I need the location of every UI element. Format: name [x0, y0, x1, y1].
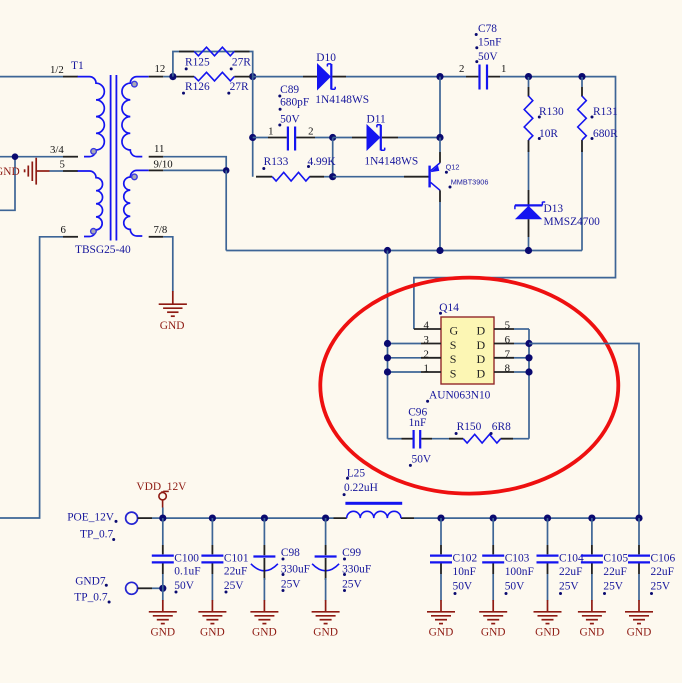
mosfet Q14 body: [441, 317, 494, 384]
junction rail C104: [544, 515, 551, 522]
svg-text:1/2: 1/2: [50, 64, 64, 76]
svg-text:D: D: [477, 366, 486, 380]
Q14 pin 5: [494, 328, 529, 330]
svg-text:7: 7: [505, 348, 511, 360]
svg-text:GND: GND: [313, 627, 338, 639]
port POE_12V circle: [126, 512, 163, 524]
transformer polarity dot pin 12 side: [132, 81, 138, 87]
svg-text:D13: D13: [544, 203, 564, 215]
svg-text:C103: C103: [505, 553, 530, 565]
svg-text:330uF: 330uF: [342, 564, 371, 576]
svg-text:15nF: 15nF: [478, 37, 501, 49]
svg-text:0.22uH: 0.22uH: [344, 482, 378, 494]
VDD stem wire: [162, 508, 164, 519]
junction left of R125/R126: [169, 73, 176, 80]
junction Q14 pin7: [525, 354, 532, 361]
svg-text:50V: 50V: [174, 580, 194, 592]
svg-text:Q14: Q14: [439, 302, 459, 314]
svg-text:C89: C89: [280, 84, 299, 96]
svg-text:8: 8: [505, 362, 510, 374]
pin 12 wire to node: [149, 76, 173, 78]
svg-text:22uF: 22uF: [224, 566, 247, 578]
junction Q14 pin6: [525, 340, 532, 347]
svg-text:100nF: 100nF: [505, 566, 534, 578]
svg-text:50V: 50V: [280, 114, 300, 126]
Q14 pin 3: [388, 343, 442, 345]
transformer T1 secondary winding lower (pins 9/10 - 7/8): [124, 170, 149, 236]
svg-text:R125: R125: [185, 57, 210, 69]
Q14 pin 2: [388, 357, 442, 359]
svg-text:Q12: Q12: [446, 162, 460, 171]
svg-text:25V: 25V: [603, 581, 623, 593]
wire R131 bottom to rail corner: [581, 158, 583, 251]
wire from R125 node down to C89 row and R133 row: [252, 77, 254, 177]
junction rail C106: [635, 515, 642, 522]
svg-text:R130: R130: [539, 106, 564, 118]
junction rail C99: [322, 515, 329, 522]
junction at C89 right: [329, 134, 336, 141]
pin 9/10 wire to junction: [149, 169, 227, 171]
svg-text:12: 12: [155, 63, 166, 75]
svg-text:C105: C105: [603, 553, 628, 565]
ground GND under C106: [625, 612, 653, 624]
capacitor C102: [430, 518, 452, 611]
svg-text:25V: 25V: [281, 579, 301, 591]
zener diode D13: [515, 202, 545, 251]
svg-text:D: D: [477, 352, 486, 366]
svg-text:GND: GND: [429, 627, 454, 639]
resistor R125: [179, 47, 250, 56]
capacitor C100: [152, 518, 174, 611]
svg-text:1: 1: [268, 125, 273, 137]
svg-text:TP_0.7: TP_0.7: [80, 529, 114, 541]
svg-text:R131: R131: [593, 106, 618, 118]
capacitor C104: [537, 518, 559, 611]
capacitor C78: [466, 65, 500, 90]
svg-text:GND: GND: [481, 627, 506, 639]
power port VDD_12V: [159, 491, 169, 507]
junction GND7 net: [159, 585, 166, 592]
svg-text:27R: 27R: [230, 81, 249, 93]
svg-text:POE_12V: POE_12V: [67, 512, 115, 524]
label anchor dots: [105, 33, 653, 604]
svg-text:GND: GND: [200, 627, 225, 639]
red highlight ellipse: [320, 278, 618, 494]
pin 6 of T1 wire down left side: [0, 237, 78, 518]
Q14 right vertical wire: [528, 329, 530, 439]
svg-text:6R8: 6R8: [492, 421, 511, 433]
capacitor C105: [581, 518, 603, 611]
svg-text:MMSZ4700: MMSZ4700: [544, 216, 601, 228]
svg-text:C101: C101: [224, 553, 249, 565]
svg-text:GND: GND: [160, 320, 185, 332]
svg-text:1N4148WS: 1N4148WS: [364, 156, 418, 168]
wire net to pin 3/4 of T1: [0, 156, 78, 158]
svg-text:0.1uF: 0.1uF: [174, 566, 200, 578]
svg-text:680R: 680R: [593, 128, 618, 140]
svg-text:GND: GND: [252, 627, 277, 639]
Q14 pin 7: [494, 357, 529, 359]
ground GND under C100: [149, 612, 177, 624]
bottom power rail: [163, 517, 639, 519]
ground GND at pin 5 (rotated): [25, 158, 50, 185]
svg-text:2: 2: [424, 348, 429, 360]
junction above Q12 emitter branch: [436, 73, 443, 80]
junction rail C98: [261, 515, 268, 522]
svg-text:50V: 50V: [478, 51, 498, 63]
junction rail VDD/C100: [159, 515, 166, 522]
svg-text:D11: D11: [367, 114, 386, 126]
svg-text:C78: C78: [478, 23, 497, 35]
Q14 pin 6: [494, 343, 529, 345]
svg-text:C104: C104: [559, 553, 584, 565]
svg-text:GND7: GND7: [75, 575, 106, 587]
Q14 pin 4 (G): [414, 328, 441, 330]
svg-text:3/4: 3/4: [50, 144, 64, 156]
resistor R126: [177, 72, 251, 81]
svg-text:D: D: [477, 338, 486, 352]
svg-text:S: S: [450, 352, 457, 366]
svg-text:R126: R126: [185, 81, 210, 93]
svg-text:C98: C98: [281, 547, 300, 559]
svg-text:D: D: [477, 324, 486, 338]
svg-text:GND: GND: [627, 627, 652, 639]
wire Q14 pin6 out to right and down to rail: [529, 344, 639, 519]
svg-text:C99: C99: [342, 547, 361, 559]
transistor Q2 body: [430, 163, 440, 191]
diode D11: [333, 124, 440, 151]
svg-text:TP_0.7: TP_0.7: [74, 592, 108, 604]
junction rail C102: [437, 515, 444, 522]
ground GND under C99: [312, 612, 340, 624]
inductor L25: [334, 511, 415, 518]
svg-text:25V: 25V: [559, 581, 579, 593]
svg-text:R133: R133: [264, 156, 289, 168]
junction Q14 pin3: [384, 340, 391, 347]
wire C89 right down to R133 right: [332, 138, 334, 177]
junction rail C105: [588, 515, 595, 522]
svg-text:C100: C100: [174, 553, 199, 565]
wire rail down to Q14 source pins: [387, 251, 389, 439]
transformer polarity dot pin 9/10 side: [132, 174, 138, 180]
svg-text:GND: GND: [580, 627, 605, 639]
node A junction on pin 3/4 wire: [12, 153, 19, 160]
pin 5 of T1: [50, 170, 79, 172]
port GND7 circle: [126, 582, 163, 594]
resistor R150: [449, 434, 529, 443]
transformer T1 primary winding upper (pins 1/2 - 3/4): [78, 77, 105, 157]
svg-text:4.99K: 4.99K: [308, 156, 337, 168]
svg-text:10nF: 10nF: [453, 566, 476, 578]
svg-text:T1: T1: [71, 60, 84, 72]
wire from R125/R126 to D10: [253, 76, 303, 78]
resistor R131: [578, 77, 587, 158]
transformer T1 secondary winding upper (pins 12 - 11): [122, 77, 149, 157]
svg-text:G: G: [450, 324, 459, 338]
junction at C89 left: [249, 134, 256, 141]
ground GND under C98: [250, 612, 278, 624]
junction Q14 pin2: [384, 354, 391, 361]
wire from top node down to D11 node: [439, 77, 441, 138]
svg-text:GND: GND: [150, 627, 175, 639]
junction top of R131: [578, 73, 585, 80]
ground GND under C104: [534, 612, 562, 624]
svg-text:22uF: 22uF: [559, 566, 582, 578]
junction at D11 cathode / Q12 emitter: [436, 134, 443, 141]
svg-text:GND: GND: [535, 627, 560, 639]
svg-text:1N4148WS: 1N4148WS: [315, 94, 369, 106]
svg-text:6: 6: [505, 334, 511, 346]
inductor L25 bar: [345, 502, 402, 505]
junction at R133 right: [329, 173, 336, 180]
junction right of R125/R126: [249, 73, 256, 80]
junction rail C103: [490, 515, 497, 522]
junction Q14 pin8: [525, 368, 532, 375]
junction rail C101: [209, 515, 216, 522]
svg-text:50V: 50V: [453, 581, 473, 593]
svg-text:AUN063N10: AUN063N10: [429, 390, 491, 402]
lower rail wire: [226, 250, 582, 252]
capacitor C98 (polarized): [251, 518, 278, 611]
diode D10: [303, 63, 346, 91]
svg-text:11: 11: [154, 143, 164, 155]
svg-text:R150: R150: [457, 421, 482, 433]
svg-text:7/8: 7/8: [154, 224, 168, 236]
svg-text:25V: 25V: [342, 579, 362, 591]
svg-text:25V: 25V: [224, 580, 244, 592]
capacitor C99 (polarized): [312, 518, 339, 611]
ground GND under C103: [479, 612, 507, 624]
svg-text:TBSG25-40: TBSG25-40: [75, 244, 131, 256]
ground GND under C101: [198, 612, 226, 624]
svg-text:2: 2: [459, 63, 464, 75]
wire R133 row to Q12 base: [333, 176, 429, 178]
svg-text:VDD_12V: VDD_12V: [136, 481, 187, 493]
svg-text:S: S: [450, 338, 457, 352]
transformer polarity dot pin 3/4 side: [91, 149, 97, 155]
junction Q14 pin1: [384, 368, 391, 375]
svg-text:D10: D10: [316, 52, 336, 64]
svg-text:C106: C106: [651, 553, 676, 565]
svg-text:6: 6: [61, 224, 67, 236]
junction rail at D13: [525, 247, 532, 254]
ground GND under C102: [427, 612, 455, 624]
junction rail at Q12 collector: [436, 247, 443, 254]
resistor R130: [524, 77, 533, 158]
wire net to pin 1/2 of T1: [0, 76, 78, 78]
capacitor C106: [628, 518, 650, 611]
svg-text:C102: C102: [453, 553, 478, 565]
ground GND under C105: [578, 612, 606, 624]
svg-text:MMBT3906: MMBT3906: [451, 178, 489, 187]
ground GND below pin 7/8: [159, 304, 187, 316]
Q12 collector wire down: [439, 190, 441, 250]
svg-text:25V: 25V: [651, 581, 671, 593]
wire D10 to C78 and node: [346, 76, 466, 78]
svg-text:27R: 27R: [232, 57, 251, 69]
svg-text:3: 3: [424, 334, 429, 346]
svg-text:5: 5: [505, 320, 510, 332]
pin 11 wire over to junction: [149, 157, 227, 171]
capacitor C103: [482, 518, 504, 611]
svg-text:680pF: 680pF: [280, 96, 309, 108]
junction rail to Q14 gate-net drop: [384, 247, 391, 254]
svg-text:4: 4: [424, 320, 430, 332]
capacitor C89: [253, 127, 333, 151]
svg-text:5: 5: [60, 159, 65, 171]
svg-text:22uF: 22uF: [603, 566, 626, 578]
svg-text:GND: GND: [0, 166, 20, 178]
svg-text:50V: 50V: [505, 581, 525, 593]
svg-text:10R: 10R: [539, 128, 558, 140]
svg-text:L25: L25: [347, 468, 366, 480]
wire C78 to R130 R131 and corner down: [414, 77, 616, 329]
transformer T1 primary winding lower (pins 5 - 6): [78, 171, 103, 237]
svg-text:330uF: 330uF: [281, 564, 310, 576]
wire loop for R125 branch: [173, 52, 253, 77]
svg-text:1: 1: [501, 63, 506, 75]
svg-text:1: 1: [424, 362, 429, 374]
resistor R133: [256, 172, 333, 181]
svg-text:1nF: 1nF: [409, 417, 427, 429]
pin 7/8 wire down to ground: [149, 237, 173, 304]
svg-text:S: S: [450, 366, 457, 380]
Q14 pin 8: [494, 371, 529, 373]
svg-text:9/10: 9/10: [154, 159, 173, 171]
Q12 emitter wire up: [439, 138, 441, 163]
transformer T1 core: [111, 75, 117, 241]
junction top of R130: [525, 73, 532, 80]
capacitor C96: [388, 430, 450, 449]
capacitor C101: [201, 518, 223, 611]
junction at 9/10 node: [223, 167, 230, 174]
svg-text:22uF: 22uF: [651, 566, 674, 578]
svg-text:50V: 50V: [412, 454, 432, 466]
wire R130 bottom to D13 top: [528, 158, 530, 205]
wire branch from node at pin 3/4 down and out left: [0, 157, 15, 211]
Q14 pin 1: [388, 371, 442, 373]
transformer polarity dot pin 6 side: [91, 229, 97, 235]
wire down from 9/10 junction to lower rail: [225, 170, 227, 250]
svg-text:2: 2: [308, 125, 313, 137]
